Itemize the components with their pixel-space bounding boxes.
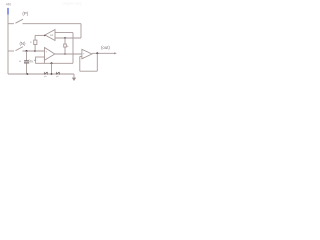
wire: amp2 output y=54 to buffer (55, 53, 82, 55)
wire: feedback right vertical x=97.3 (96, 53, 98, 71)
svg-text:+IN: +IN (6, 2, 12, 6)
wire: feedback bottom y=71.2 (80, 70, 98, 72)
switch S1 (P input) (8, 23, 14, 25)
wire: vertical x=51.6 down to rail (51, 63, 53, 74)
wire: amp1 output to left (35, 34, 45, 36)
wire: amp1 bottom input y=38 (55, 37, 81, 39)
component B1 (small box on x=65 wire) (64, 44, 67, 47)
node dot at (65,38) (64, 37, 66, 39)
wire: box bottom line y=63.3 to x=73 (44, 62, 73, 64)
wire: highlighted blue segment of left input rail (7, 8, 9, 15)
wire: vertical x=35.1 down to N line (34, 35, 36, 51)
svg-text:(N): (N) (20, 41, 27, 46)
wire: left vertical rail x=8 (7, 15, 9, 74)
switch P1 on rail (left) (44, 72, 47, 75)
wire: P corner down at x=81 (80, 24, 82, 38)
node dot at (26.5,51) (26, 50, 28, 52)
wire: buffer output (92, 52, 115, 54)
node dot on rail at (51.5,74) (51, 73, 53, 75)
wire: feedback stub into buffer (80, 55, 82, 57)
op-amp A3 (output buffer) (82, 49, 92, 59)
svg-text:-: - (46, 57, 47, 60)
node dot on rail at (27.4,74) (27, 73, 29, 75)
switch S2 (N input) (8, 50, 14, 52)
wire: N line (23, 50, 45, 52)
node dot at (65,54) (64, 53, 66, 55)
arrow: bottom rail down-arrow at x=74 (73, 74, 75, 78)
wire: vertical x=65 down to amp2 output line (64, 38, 66, 54)
wire: bottom rail y=74 (8, 73, 74, 75)
capacitor C1 vertical chain x=26.5 (26, 51, 28, 60)
wire: vertical x=73 (amp1 top input / feedback net) (72, 33, 74, 64)
svg-text:(out): (out) (101, 45, 110, 50)
svg-text:chopper amp: chopper amp (62, 2, 82, 6)
arrow: output arrowhead (114, 52, 117, 54)
op-amp A2 (main, right-pointing) (45, 48, 55, 61)
op-amp A1 (left-pointing nulling amp) (45, 30, 55, 41)
switch P2 on rail (right) (56, 72, 59, 75)
wire: amp1 top input y=32.6 (55, 32, 73, 34)
svg-text:A1: A1 (50, 33, 54, 37)
node dot at (34.9,51) (34, 50, 36, 52)
wire: feedback left vertical x=79.8 (79, 56, 81, 71)
svg-text:(P): (P) (22, 11, 28, 16)
svg-text:+: + (19, 60, 21, 64)
node dot at (97.3,53.3) (96, 52, 98, 54)
wire: P line to right (23, 23, 82, 25)
node dot at (51.5,63.3) (51, 62, 53, 64)
component box C-ext (36, 57, 45, 63)
component B2 (small box on x=35.1 wire) (34, 40, 37, 44)
